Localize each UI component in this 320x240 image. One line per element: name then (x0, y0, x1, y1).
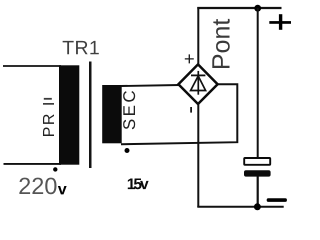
label PRI (43, 98, 54, 136)
wire bottom rail (197, 206, 283, 208)
transformer core (89, 62, 92, 169)
diode triangle (anode) (191, 76, 206, 91)
junction node bottom (254, 203, 261, 210)
wire capacitor to bottom rail (257, 177, 259, 208)
capacitor C1 top plate (hollow) (244, 158, 270, 165)
junction node top (254, 5, 261, 12)
label 15v (128, 178, 149, 189)
wire bridge top vertex up (197, 7, 199, 65)
capacitor C1 bottom plate (solid) (244, 170, 271, 176)
phasing dot secondary (125, 148, 130, 153)
transformer TR1 primary winding (59, 65, 79, 164)
wire primary bottom lead (4, 163, 62, 165)
label + (output plus symbol) (269, 14, 291, 30)
diode cathode bar (191, 74, 205, 76)
bridge rectifier Pont diamond (178, 64, 217, 104)
label + (bridge dc plus) (185, 54, 194, 63)
transformer TR1 secondary winding (102, 85, 122, 143)
wire secondary top to bridge left vertex (121, 85, 180, 86)
label TR1 (63, 41, 99, 54)
label Pont (212, 19, 229, 68)
label v (primary volts) (58, 186, 67, 194)
phasing dot primary (53, 167, 57, 171)
label - (output minus symbol) (267, 198, 287, 202)
label - (bridge dc minus, rotated) (190, 107, 192, 113)
label 220 (19, 178, 56, 195)
wire bridge right vertex to right then down then left to secondary bottom (121, 84, 237, 144)
label SEC (123, 91, 135, 129)
wire primary top lead (3, 65, 61, 67)
diode inside bridge: vertical wire (197, 71, 199, 95)
wire bridge bottom vertex down (197, 104, 199, 207)
wire top rail (197, 7, 281, 9)
wire right vertical from top node to capacitor (257, 8, 259, 158)
